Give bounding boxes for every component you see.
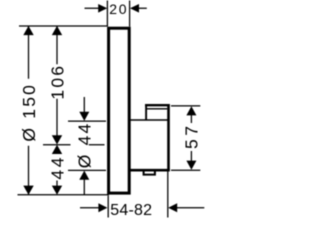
svg-text:Ø 150: Ø 150	[19, 83, 39, 142]
arrow 57 top	[186, 106, 196, 115]
svg-text:106: 106	[47, 64, 67, 100]
arrow O150 bottom	[23, 186, 33, 195]
extension line bottom (plate bottom, y=194.7)	[18, 194, 110, 196]
label O44	[75, 122, 95, 169]
extension line 57 top	[171, 105, 200, 107]
wall plate (side view rectangle)	[109, 28, 130, 193]
handle upper cap left edge	[145, 104, 147, 120]
arrow 20 left (points right)	[98, 4, 107, 13]
dim line 54-82 leaders	[80, 207, 204, 209]
arrow 54-82 right (points left)	[168, 203, 177, 212]
dim line O150 (x=28.5)	[28, 27, 30, 195]
handle bottom edge	[130, 169, 169, 172]
label 20	[109, 1, 128, 17]
arrow 106 top	[52, 26, 62, 35]
arrow 54-82 left (points right)	[98, 203, 107, 212]
label 57	[182, 123, 202, 149]
label 106	[47, 64, 67, 100]
arrow O44 bottom (points up)	[79, 171, 89, 180]
arrow 44 top (hourglass lower)	[52, 145, 62, 154]
arrow 44 bottom	[52, 186, 62, 195]
label 54-82	[110, 202, 152, 219]
arrow 106 bottom (hourglass upper)	[52, 135, 62, 144]
extension line 54-82 left	[107, 196, 109, 218]
svg-text:Ø 44: Ø 44	[75, 122, 95, 169]
arrow 20 right (points left)	[130, 4, 139, 13]
arrow O44 top (points down)	[79, 112, 89, 121]
dim line 57 (x=191.4)	[190, 115, 192, 162]
label 44	[47, 155, 67, 180]
handle bottom notch	[144, 170, 155, 174]
extension line handle bottom (y=170.4)	[68, 169, 106, 171]
extension line 20 right	[129, 1, 131, 27]
handle upper cap top edge	[145, 104, 170, 106]
extension line 57 bottom	[171, 169, 200, 171]
extension line mid (outlet centerline y=144.7)	[43, 144, 105, 146]
svg-text:44: 44	[47, 155, 67, 180]
svg-text:20: 20	[109, 1, 128, 17]
dim line O44 (x=84.3)	[83, 97, 85, 195]
dim line 106/44 (x=57)	[56, 27, 58, 187]
handle body top edge	[130, 119, 169, 121]
handle upper cap inner line	[147, 108, 168, 110]
extension line top (plate top, y=26)	[19, 25, 107, 27]
handle right edge	[167, 104, 170, 170]
svg-text:54-82: 54-82	[110, 202, 152, 219]
label O150	[19, 83, 39, 142]
arrow O150 top	[23, 26, 33, 35]
extension line 20 left	[106, 1, 108, 27]
arrow 57 bottom	[186, 161, 196, 170]
extension line handle top (y=121)	[68, 120, 106, 122]
extension line 54-82 right	[167, 171, 169, 218]
dim line 20 leaders	[85, 7, 147, 9]
svg-text:57: 57	[182, 123, 202, 149]
